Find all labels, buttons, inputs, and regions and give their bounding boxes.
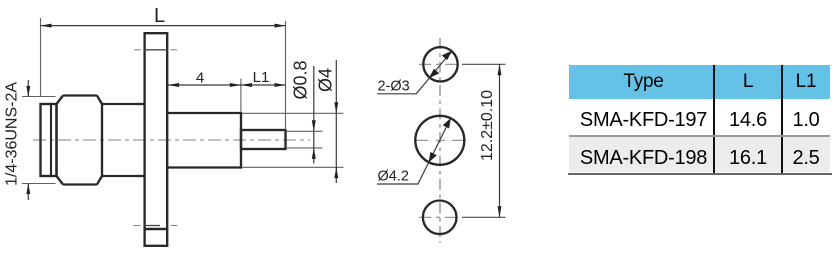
top hole [423, 47, 457, 81]
L dimension [40, 18, 42, 97]
svg-text:Ø0.8: Ø0.8 [291, 60, 311, 99]
svg-text:1/4-36UNS-2A: 1/4-36UNS-2A [4, 82, 21, 186]
table column divider 1 [713, 65, 715, 174]
svg-text:L1: L1 [253, 69, 270, 86]
spec table [569, 65, 830, 172]
bottom hole centerline [145, 225, 161, 227]
table column divider 2 [781, 65, 783, 174]
top hole centerline [145, 49, 168, 51]
thread runout line [50, 104, 52, 176]
4 dimension [240, 79, 242, 112]
table row SMA-KFD-197 [569, 99, 830, 135]
dia 0.8 dimension [313, 66, 315, 164]
table header row: Type / L / L1 [569, 65, 830, 99]
flange [145, 33, 168, 246]
table row separator [569, 135, 830, 137]
thread crest line bottom [22, 183, 56, 185]
bottom hole edge line [145, 228, 168, 231]
svg-text:2-Ø3: 2-Ø3 [378, 79, 410, 95]
mid cylinder between hex and flange [102, 103, 144, 105]
dia 4 dimension [335, 60, 337, 183]
L1 dimension [241, 84, 286, 86]
barrel (threaded front) [41, 104, 57, 176]
table bottom border [568, 173, 832, 175]
body behind flange (dia 4) [168, 113, 241, 168]
middle hole [415, 116, 464, 165]
centerline (main axis) [33, 139, 310, 141]
bottom hole [423, 201, 457, 235]
thread dimension 1/4-36UNS-2A [27, 80, 29, 97]
svg-text:4: 4 [196, 70, 204, 87]
dia0.8 extension lines [286, 130, 323, 132]
hex nut [57, 96, 103, 185]
dia4 extension lines [242, 112, 344, 114]
thread crest line top [22, 96, 56, 98]
12.2 dimension [499, 64, 501, 217]
horizontal centerline top hole + extension [419, 63, 462, 65]
horizontal centerline middle hole [414, 139, 466, 141]
table row SMA-KFD-198 [569, 135, 830, 172]
terminal pin (dia 0.8) [241, 130, 286, 149]
svg-text:12.2±0.10: 12.2±0.10 [479, 90, 496, 161]
horizontal centerline bottom hole + extension [419, 216, 462, 218]
svg-text:Ø4.2: Ø4.2 [378, 169, 409, 185]
svg-text:Ø4: Ø4 [316, 68, 336, 92]
svg-text:L: L [154, 5, 165, 27]
vertical centerline [439, 38, 441, 243]
